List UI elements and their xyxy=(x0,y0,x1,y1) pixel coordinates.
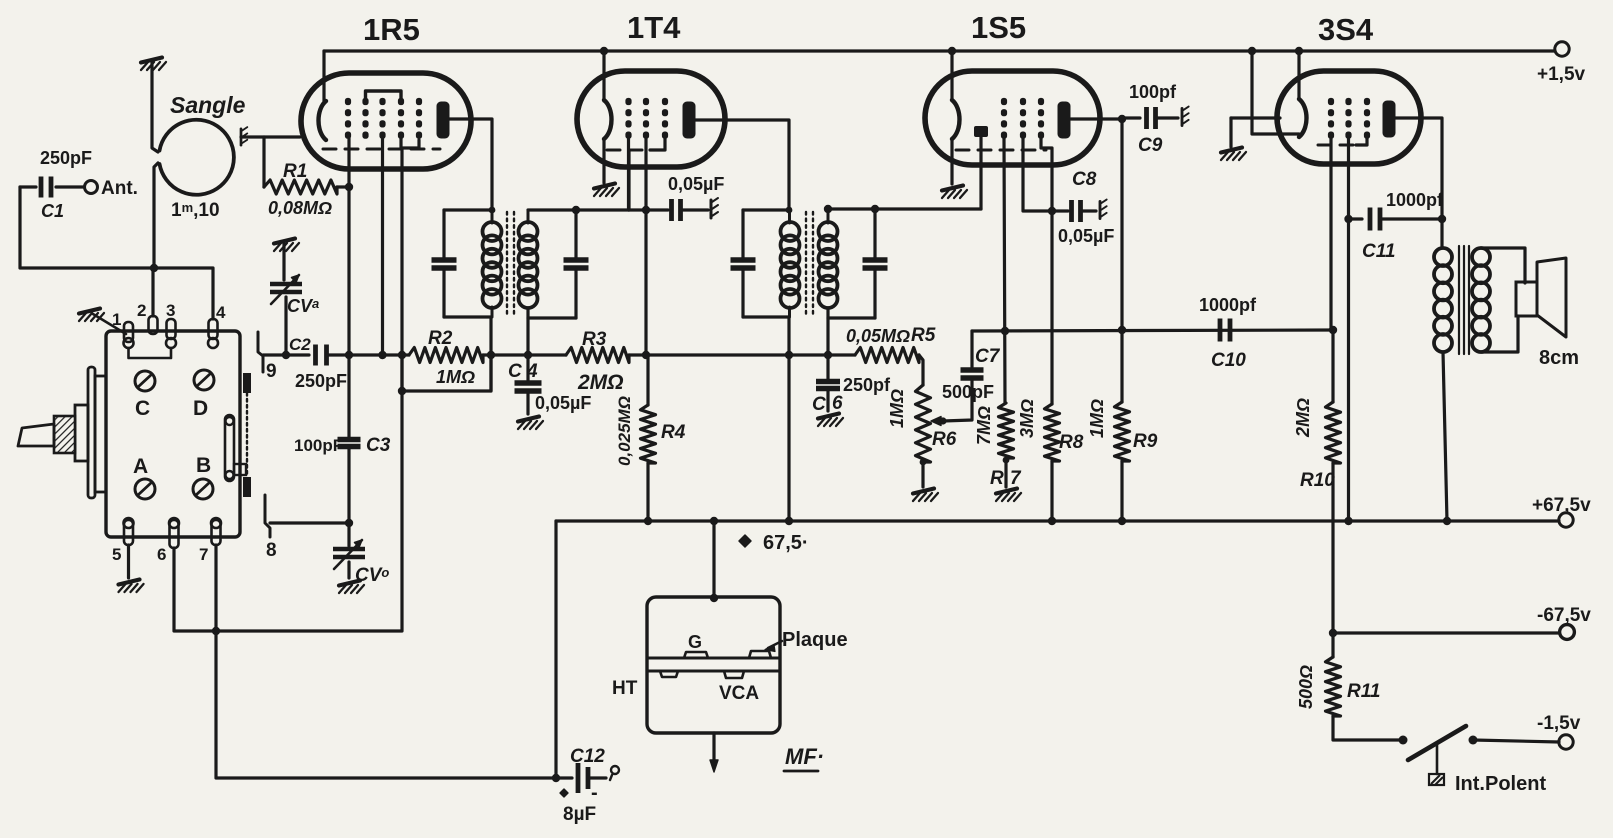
wire stub to R1 xyxy=(262,137,265,187)
svg-text:6: 6 xyxy=(157,545,166,564)
switch pin 2 xyxy=(149,316,158,334)
svg-text:R9: R9 xyxy=(1133,431,1158,452)
3S4 g3 tie to dashed line xyxy=(1356,136,1367,145)
1R5 anode xyxy=(437,102,450,139)
svg-text:6: 6 xyxy=(832,393,843,414)
svg-text:500pF: 500pF xyxy=(942,382,994,402)
switch screw C xyxy=(135,371,155,391)
wire R9 to B+ xyxy=(1120,461,1123,521)
wire oscillator line to grid xyxy=(216,148,402,631)
svg-text:0,05µF: 0,05µF xyxy=(1058,226,1114,246)
1R5 anode lead xyxy=(449,119,492,210)
3S4 g2 screen lead down xyxy=(1347,139,1350,521)
svg-text:C: C xyxy=(812,394,826,415)
capacitor C11 xyxy=(1349,217,1363,220)
junction primary-midline xyxy=(487,351,495,359)
switch lever xyxy=(1408,726,1466,760)
svg-text:7MΩ: 7MΩ xyxy=(974,406,994,445)
switch lever pivot tick xyxy=(1436,744,1439,774)
tube 1T4 envelope xyxy=(577,71,725,167)
switch slot xyxy=(225,415,234,481)
1R5 grid column g5 xyxy=(416,98,422,105)
IFT2 primary cap xyxy=(731,257,756,263)
IFT1 primary bottom drop xyxy=(489,317,492,391)
wire pin8 to C3 node xyxy=(270,521,349,524)
svg-text:4: 4 xyxy=(216,303,226,322)
IFT2 core xyxy=(805,212,807,317)
3S4 filament xyxy=(1299,99,1307,137)
svg-text:G: G xyxy=(688,632,702,652)
wire R7 to ground xyxy=(1004,458,1007,487)
wire pin7 down to C12 line xyxy=(216,545,556,778)
svg-text:R: R xyxy=(990,468,1004,489)
junction IFT2 prim-midline xyxy=(785,351,793,359)
junction antenna line xyxy=(150,264,158,272)
svg-text:A: A xyxy=(133,455,148,478)
3S4 grid column g2 xyxy=(1345,98,1351,105)
ground (CV0) xyxy=(339,581,364,594)
3S4 grid column g3 xyxy=(1364,98,1370,105)
1T4 filament xyxy=(604,100,612,139)
variable capacitor CV0 xyxy=(333,547,365,552)
tube 3S4 envelope xyxy=(1277,71,1421,164)
svg-text:1000pf: 1000pf xyxy=(1386,190,1444,210)
IFT2 primary bottom drop to B+ xyxy=(787,317,790,521)
svg-text:250pF: 250pF xyxy=(295,371,347,391)
svg-text:9: 9 xyxy=(266,361,277,382)
svg-text:R4: R4 xyxy=(661,422,686,443)
junction R1-g1 lead xyxy=(345,183,353,191)
1S5 filament ground lead xyxy=(950,139,953,184)
junction anode-C9 xyxy=(1118,115,1126,123)
wire gnd to CV' xyxy=(282,244,285,280)
svg-text:2: 2 xyxy=(137,301,146,320)
svg-text:250pF: 250pF xyxy=(40,148,92,168)
wire primary bottom to B+ xyxy=(1443,352,1447,521)
IFT2 secondary top wire xyxy=(828,207,875,210)
wire +67,5v B+ line xyxy=(556,519,1559,522)
svg-text:C9: C9 xyxy=(1138,135,1163,156)
terminal +67,5v xyxy=(1559,513,1573,527)
wire secondary bottom to speaker xyxy=(1481,316,1518,352)
wire C3 to pin8 line xyxy=(347,449,350,546)
junction MF riser xyxy=(710,517,718,525)
junction MF top pin xyxy=(710,594,718,602)
switch wafer strip xyxy=(243,373,251,393)
MF block lug plaque xyxy=(749,651,771,658)
MF bottom pin arrow xyxy=(712,733,715,764)
junction bias node xyxy=(1329,629,1337,637)
1S5 filament xyxy=(952,100,960,139)
svg-text:Ant.: Ant. xyxy=(101,178,138,199)
junction IFT2 prim B+ xyxy=(785,517,793,525)
svg-text:67,5·: 67,5· xyxy=(763,532,809,554)
1T4 g2 lead down long xyxy=(644,139,647,355)
1S5 g1 lead down xyxy=(1004,139,1005,403)
wire R10 to bias line xyxy=(1331,463,1334,657)
resistor R7 xyxy=(999,403,1014,458)
1S5 grid column g3 xyxy=(1038,98,1044,105)
plaque arrow xyxy=(768,641,782,648)
wire CV' to midline xyxy=(284,297,287,355)
switch pointer xyxy=(18,424,54,446)
switch pin 8 xyxy=(265,495,270,537)
switch screw B xyxy=(193,479,213,499)
1R5 filament feed wire xyxy=(322,51,325,101)
svg-text:Sangle: Sangle xyxy=(170,92,246,118)
wire -67,5v line xyxy=(1333,631,1559,634)
variable capacitor CV' xyxy=(270,282,302,287)
svg-text:R11: R11 xyxy=(1347,681,1380,702)
wire pin9 to C2 xyxy=(263,353,309,356)
svg-text:1T4: 1T4 xyxy=(627,10,681,45)
capacitor C6 xyxy=(826,355,829,379)
ground (loop antenna top) xyxy=(141,58,166,71)
svg-text:8cm: 8cm xyxy=(1539,347,1579,369)
svg-text:R2: R2 xyxy=(428,328,453,349)
wire switch to terminal -1,5v xyxy=(1473,740,1559,742)
ground (1S5 filament) xyxy=(942,186,967,199)
svg-text:R8: R8 xyxy=(1059,432,1084,453)
ground (switch pin1) xyxy=(79,309,104,322)
junction C6 node xyxy=(824,351,832,359)
1R5 screen bracket xyxy=(366,91,402,100)
svg-text:-1,5v: -1,5v xyxy=(1537,713,1581,734)
terminal -1,5v xyxy=(1559,735,1573,749)
junction pin6-pin7 xyxy=(212,627,220,635)
svg-text:100pF: 100pF xyxy=(294,436,343,455)
svg-text:+67,5v: +67,5v xyxy=(1532,495,1591,516)
svg-text:C10: C10 xyxy=(1211,350,1246,371)
output transformer core xyxy=(1458,246,1460,354)
svg-text:250pf: 250pf xyxy=(843,375,891,395)
resistor R9 xyxy=(1115,402,1130,461)
wire +1,5v top rail xyxy=(324,49,1555,52)
switch pin 3 xyxy=(167,319,176,339)
MF block lug G xyxy=(684,652,708,658)
svg-text:C1: C1 xyxy=(41,201,64,221)
wire riser to B+ line xyxy=(554,521,557,778)
switch Int.Polent contact a xyxy=(1399,736,1408,745)
junction C8 node xyxy=(1048,207,1056,215)
grid cap stub 1R5 xyxy=(241,135,300,138)
svg-text:B: B xyxy=(196,454,211,477)
1T4 g1 lead down to IFT1 xyxy=(627,139,630,210)
MF block lug VCA xyxy=(724,671,744,678)
svg-text:1MΩ: 1MΩ xyxy=(436,367,475,387)
junction IFT1-sec-midline C4 node xyxy=(524,351,532,359)
terminal +1,5v xyxy=(1555,42,1569,56)
wire gnd to pin1 xyxy=(93,314,126,334)
1S5 internal dashed line xyxy=(956,149,1046,152)
tube 1R5 envelope xyxy=(301,73,471,169)
svg-text:1MΩ: 1MΩ xyxy=(1087,399,1107,438)
junction R9-B+ xyxy=(1118,517,1126,525)
switch pin 1 xyxy=(124,322,133,342)
3S4 anode lead xyxy=(1395,118,1442,248)
1R5 g3 lead down xyxy=(381,137,384,355)
IFT1 secondary coil xyxy=(519,222,538,241)
1T4 g3 tie to dashed line xyxy=(650,139,665,150)
junction C11-anode line xyxy=(1438,215,1446,223)
1R5 grid column g4 xyxy=(398,98,404,105)
junction R2 left xyxy=(398,351,406,359)
svg-text:C2: C2 xyxy=(289,335,311,354)
svg-text:8µF: 8µF xyxy=(563,804,596,825)
switch pin 5 xyxy=(124,520,133,545)
IFT1 primary top wire xyxy=(444,208,492,211)
svg-text:C 4: C 4 xyxy=(508,361,538,382)
loop antenna feed wire xyxy=(152,63,158,152)
resistor R11 xyxy=(1326,657,1341,716)
R6 wiper arrow xyxy=(934,420,946,423)
1R5 grid column g1 xyxy=(345,98,351,105)
IFT1 secondary top wire xyxy=(528,208,629,211)
svg-text:7: 7 xyxy=(199,545,208,564)
switch shaft xyxy=(75,405,88,461)
1S5 diode lead xyxy=(979,137,982,209)
IFT2 secondary cap xyxy=(863,257,888,263)
terminal -67,5v xyxy=(1560,625,1575,640)
svg-text:500Ω: 500Ω xyxy=(1296,665,1316,709)
1T4 filament feed wire xyxy=(602,51,605,101)
switch pin 6 xyxy=(170,520,179,548)
ground (3S4) xyxy=(1221,148,1246,161)
svg-text:0,05µF: 0,05µF xyxy=(668,174,724,194)
wire C7 to R6 wiper xyxy=(943,378,972,421)
IFT2 secondary bottom wire xyxy=(828,316,875,319)
svg-text:2MΩ: 2MΩ xyxy=(577,371,624,394)
1T4 filament ground lead xyxy=(602,139,605,183)
wire secondary top to speaker xyxy=(1481,248,1525,283)
junction g3-midline xyxy=(378,351,386,359)
3S4 g1 lead down xyxy=(1329,139,1332,330)
junction rail-3S4 b xyxy=(1295,47,1303,55)
1R5 filament xyxy=(319,101,327,140)
svg-text:2MΩ: 2MΩ xyxy=(1293,398,1313,438)
svg-text:100pf: 100pf xyxy=(1129,82,1177,102)
wire C8 node to R8 xyxy=(1050,211,1053,404)
speaker xyxy=(1516,282,1537,316)
3S4 ground lead xyxy=(1229,118,1232,147)
resistor R8 xyxy=(1045,404,1060,461)
wire IFT1 sec top to 1T4 grid xyxy=(627,150,630,210)
junction CV'-midline xyxy=(282,351,290,359)
IFT2 secondary coil xyxy=(819,222,838,241)
output transformer primary coil xyxy=(1434,248,1452,266)
AVC midline wire xyxy=(327,353,409,356)
svg-text:R5: R5 xyxy=(911,325,936,346)
svg-text:1MΩ: 1MΩ xyxy=(887,389,907,428)
svg-text:0,05MΩ: 0,05MΩ xyxy=(846,326,910,346)
wire pin2 up xyxy=(151,268,154,316)
MF block lug HT xyxy=(660,671,678,677)
1T4 grid column g1 xyxy=(625,98,631,105)
junction anode line - AVC line xyxy=(1118,326,1126,334)
resistor R10 xyxy=(1326,402,1341,463)
svg-text:MF·: MF· xyxy=(785,744,824,769)
svg-text:1000pf: 1000pf xyxy=(1199,295,1257,315)
junction primary-B+ xyxy=(1443,517,1451,525)
svg-text:1m,10: 1m,10 xyxy=(171,200,220,221)
svg-text:-: - xyxy=(591,782,598,804)
1S5 grid column g1 xyxy=(1001,98,1007,105)
wire grid node to R10 xyxy=(1331,330,1334,402)
switch shaft plates xyxy=(88,367,95,498)
svg-text:1R5: 1R5 xyxy=(363,12,420,47)
3S4 filament feed wire xyxy=(1297,51,1300,99)
3S4 envelope ground stub xyxy=(1231,116,1280,119)
svg-text:R10: R10 xyxy=(1300,470,1335,491)
1R5 internal dashed line xyxy=(323,148,440,151)
svg-text:C: C xyxy=(135,397,150,420)
svg-text:C11: C11 xyxy=(1362,241,1395,262)
junction R7 top xyxy=(1001,327,1009,335)
resistor R4 xyxy=(641,405,656,463)
terminal Ant. xyxy=(85,181,98,194)
junction R4 top node xyxy=(642,351,650,359)
junction C3-pin8 xyxy=(345,519,353,527)
svg-text:HT: HT xyxy=(612,678,638,699)
IFT2 primary bottom wire xyxy=(743,315,789,318)
svg-text:VCA: VCA xyxy=(719,683,759,704)
junction rail-3S4 a xyxy=(1248,47,1256,55)
svg-text:3S4: 3S4 xyxy=(1318,12,1374,47)
junction R4 bottom xyxy=(644,517,652,525)
IFT1 primary bottom wire xyxy=(444,315,491,318)
1R5 grid column g2 xyxy=(362,98,368,105)
label + 67,5 xyxy=(739,535,751,547)
junction IFT1 cap top xyxy=(572,206,580,214)
svg-text:0,05µF: 0,05µF xyxy=(535,393,591,413)
AVC line to C10 xyxy=(972,330,1334,331)
junction g1-midline xyxy=(345,351,353,359)
junction R8-B+ xyxy=(1048,517,1056,525)
svg-text:7: 7 xyxy=(1010,468,1022,489)
wire C1 to switch xyxy=(20,187,213,319)
IFT2 primary top wire xyxy=(743,208,789,211)
IFT1 secondary cap xyxy=(564,257,589,263)
wire CV0 to ground xyxy=(347,562,350,578)
junction rail-1T4 xyxy=(600,47,608,55)
1S5 anode lead xyxy=(1071,119,1122,330)
switch screw D xyxy=(194,370,214,390)
ground (R6) xyxy=(913,489,938,502)
svg-text:3MΩ: 3MΩ xyxy=(1017,399,1037,438)
svg-text:D: D xyxy=(193,397,208,420)
junction C10-3S4 grid xyxy=(1329,326,1337,334)
ground (switch pin5) xyxy=(119,580,144,593)
1T4 internal dashed line xyxy=(607,149,652,152)
1S5 g3 tie wire to C8 node xyxy=(1041,139,1052,211)
svg-text:C8: C8 xyxy=(1072,169,1097,190)
junction C12 riser xyxy=(552,774,560,782)
3S4 filament return wire xyxy=(1252,51,1299,134)
diode detector wire xyxy=(875,207,981,210)
switch pin 9 xyxy=(258,332,263,372)
junction rail-1S5 xyxy=(948,47,956,55)
switch knob hatched xyxy=(54,416,75,453)
junction IFT2 sec top xyxy=(824,205,832,213)
1S5 diode plate xyxy=(974,126,988,137)
switch pin 7 xyxy=(212,520,221,545)
wire pin6 down xyxy=(174,548,216,631)
MF block divider upper xyxy=(647,657,780,660)
svg-text:0,025MΩ: 0,025MΩ xyxy=(615,396,634,466)
IFT1 core xyxy=(506,212,508,317)
IFT1 secondary bottom to C4 node xyxy=(526,308,529,355)
loop antenna Sangle xyxy=(160,120,234,195)
junction loop-grid wire xyxy=(398,387,406,395)
switch block body xyxy=(106,331,240,537)
svg-text:R6: R6 xyxy=(932,429,957,450)
svg-text:Int.Polent: Int.Polent xyxy=(1455,773,1546,795)
resistor R6 xyxy=(916,385,931,462)
1S5 grid column g2 xyxy=(1020,98,1026,105)
1S5 g2 lead down xyxy=(1023,139,1052,211)
capacitor C1 xyxy=(20,185,36,188)
junction coupling cap node xyxy=(642,206,650,214)
loop wire under R2 xyxy=(402,355,491,391)
svg-text:5: 5 xyxy=(112,545,121,564)
1R5 grid column g3 xyxy=(379,98,385,105)
svg-text:C7: C7 xyxy=(975,346,1001,367)
svg-text:0,08MΩ: 0,08MΩ xyxy=(268,198,332,218)
svg-text:1S5: 1S5 xyxy=(971,10,1026,45)
svg-text:-67,5v: -67,5v xyxy=(1537,605,1591,626)
wire R6 to ground xyxy=(920,459,927,466)
ground (C4) xyxy=(518,417,543,430)
wire R5 to R6 xyxy=(919,355,923,385)
wire pin5 to ground xyxy=(127,545,130,578)
MF block body xyxy=(647,597,780,733)
switch screw A xyxy=(135,479,155,499)
ground (C6) xyxy=(818,414,843,427)
IFT1 primary cap xyxy=(432,257,457,263)
ground (1T4 filament) xyxy=(594,184,619,197)
IFT1 primary coil xyxy=(483,222,502,241)
1S5 anode xyxy=(1058,102,1071,139)
wire R11 to switch xyxy=(1333,716,1403,740)
MF block divider lower xyxy=(647,670,780,673)
svg-text:3: 3 xyxy=(166,301,175,320)
3S4 anode xyxy=(1383,101,1396,138)
output transformer secondary coil xyxy=(1472,248,1490,266)
svg-text:Plaque: Plaque xyxy=(782,629,848,651)
3S4 grid column g1 xyxy=(1328,98,1334,105)
svg-text:C3: C3 xyxy=(366,435,391,456)
IFT2 primary coil xyxy=(781,222,800,241)
wire to R9 xyxy=(1120,330,1123,402)
tube 1S5 envelope xyxy=(925,71,1100,165)
junction screen-B+ xyxy=(1344,517,1352,525)
3S4 internal dashed line xyxy=(1318,144,1355,147)
1T4 anode lead xyxy=(695,120,789,210)
IFT2 secondary bottom drop to C6 xyxy=(826,308,829,355)
switch pin 4 xyxy=(209,319,218,339)
svg-text:C12: C12 xyxy=(570,746,605,767)
IFT1 primary cap leads xyxy=(442,210,445,260)
1T4 anode xyxy=(683,102,696,139)
IFT1 secondary bottom wire xyxy=(528,316,576,319)
MF riser wire xyxy=(712,521,715,597)
loop antenna lower lead xyxy=(154,163,158,268)
svg-text:8: 8 xyxy=(266,540,277,561)
1R5 col4-col5 bottom tie xyxy=(401,137,419,148)
1S5 filament feed wire xyxy=(950,50,953,100)
1T4 grid column g2 xyxy=(643,98,649,105)
switch Int.Polent contact b xyxy=(1469,736,1478,745)
